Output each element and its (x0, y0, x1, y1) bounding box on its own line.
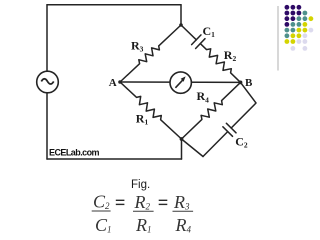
capacitor C2 plate (226, 123, 236, 133)
svg-text:C2: C2 (93, 192, 110, 212)
ac source V1 (37, 71, 59, 93)
wire: bottom stub up to bottom node (181, 139, 183, 159)
logo dot matrix (285, 5, 314, 51)
svg-text:ECELab.com: ECELab.com (49, 148, 100, 158)
wire: C2 branch lower lead (182, 139, 204, 157)
wire: top horizontal (47, 4, 181, 6)
node bottom junction dot (180, 137, 184, 141)
wire: bottom horizontal (47, 158, 182, 160)
node top junction dot (179, 23, 183, 27)
svg-text:R2: R2 (134, 192, 151, 212)
resistor R4 (bottom node to B) (182, 82, 241, 139)
formula fraction bar 2 (133, 210, 154, 212)
svg-text:C1: C1 (203, 24, 216, 39)
svg-text:R1: R1 (136, 111, 149, 126)
svg-text:B: B (245, 77, 253, 89)
svg-text:R2: R2 (224, 48, 237, 63)
svg-text:R4: R4 (197, 89, 210, 104)
node A junction dot (118, 80, 122, 84)
svg-text:A: A (109, 77, 117, 89)
svg-text:R1: R1 (135, 215, 152, 235)
formula equals 2 (159, 200, 168, 204)
svg-text:R3: R3 (173, 192, 190, 212)
wire: top node to capacitor C1 (181, 25, 196, 40)
svg-text:R3: R3 (131, 38, 144, 53)
svg-text:C2: C2 (235, 134, 248, 149)
logo separator line (277, 6, 279, 71)
wire: top stub down to top node (180, 5, 182, 25)
resistor R1 (arm A to bottom node) (120, 82, 182, 139)
capacitor C1 plate (196, 39, 205, 49)
formula fraction bar 1 (92, 210, 111, 212)
svg-text:Fig.: Fig. (131, 179, 150, 191)
formula C2/C1 = R2/R1 = R3/R4 (92, 192, 193, 236)
node B junction dot (239, 81, 243, 85)
wire: A to B horizontal (through galvanometer) (120, 81, 241, 83)
svg-text:C1: C1 (95, 215, 112, 235)
capacitor C1 plate (192, 35, 201, 45)
resistor R2 (C1 to node B) (200, 44, 240, 83)
galvanometer G (170, 72, 191, 93)
wire: left vertical (through source) (46, 5, 48, 159)
wire: C2 branch to plate (203, 132, 228, 157)
formula equals 1 (116, 200, 125, 204)
resistor R3 (arm A to top node) (120, 25, 181, 82)
wire: C2 branch upper lead to B (231, 82, 256, 128)
formula fraction bar 3 (173, 210, 194, 212)
capacitor C2 plate (223, 127, 233, 137)
svg-text:R4: R4 (175, 215, 192, 235)
